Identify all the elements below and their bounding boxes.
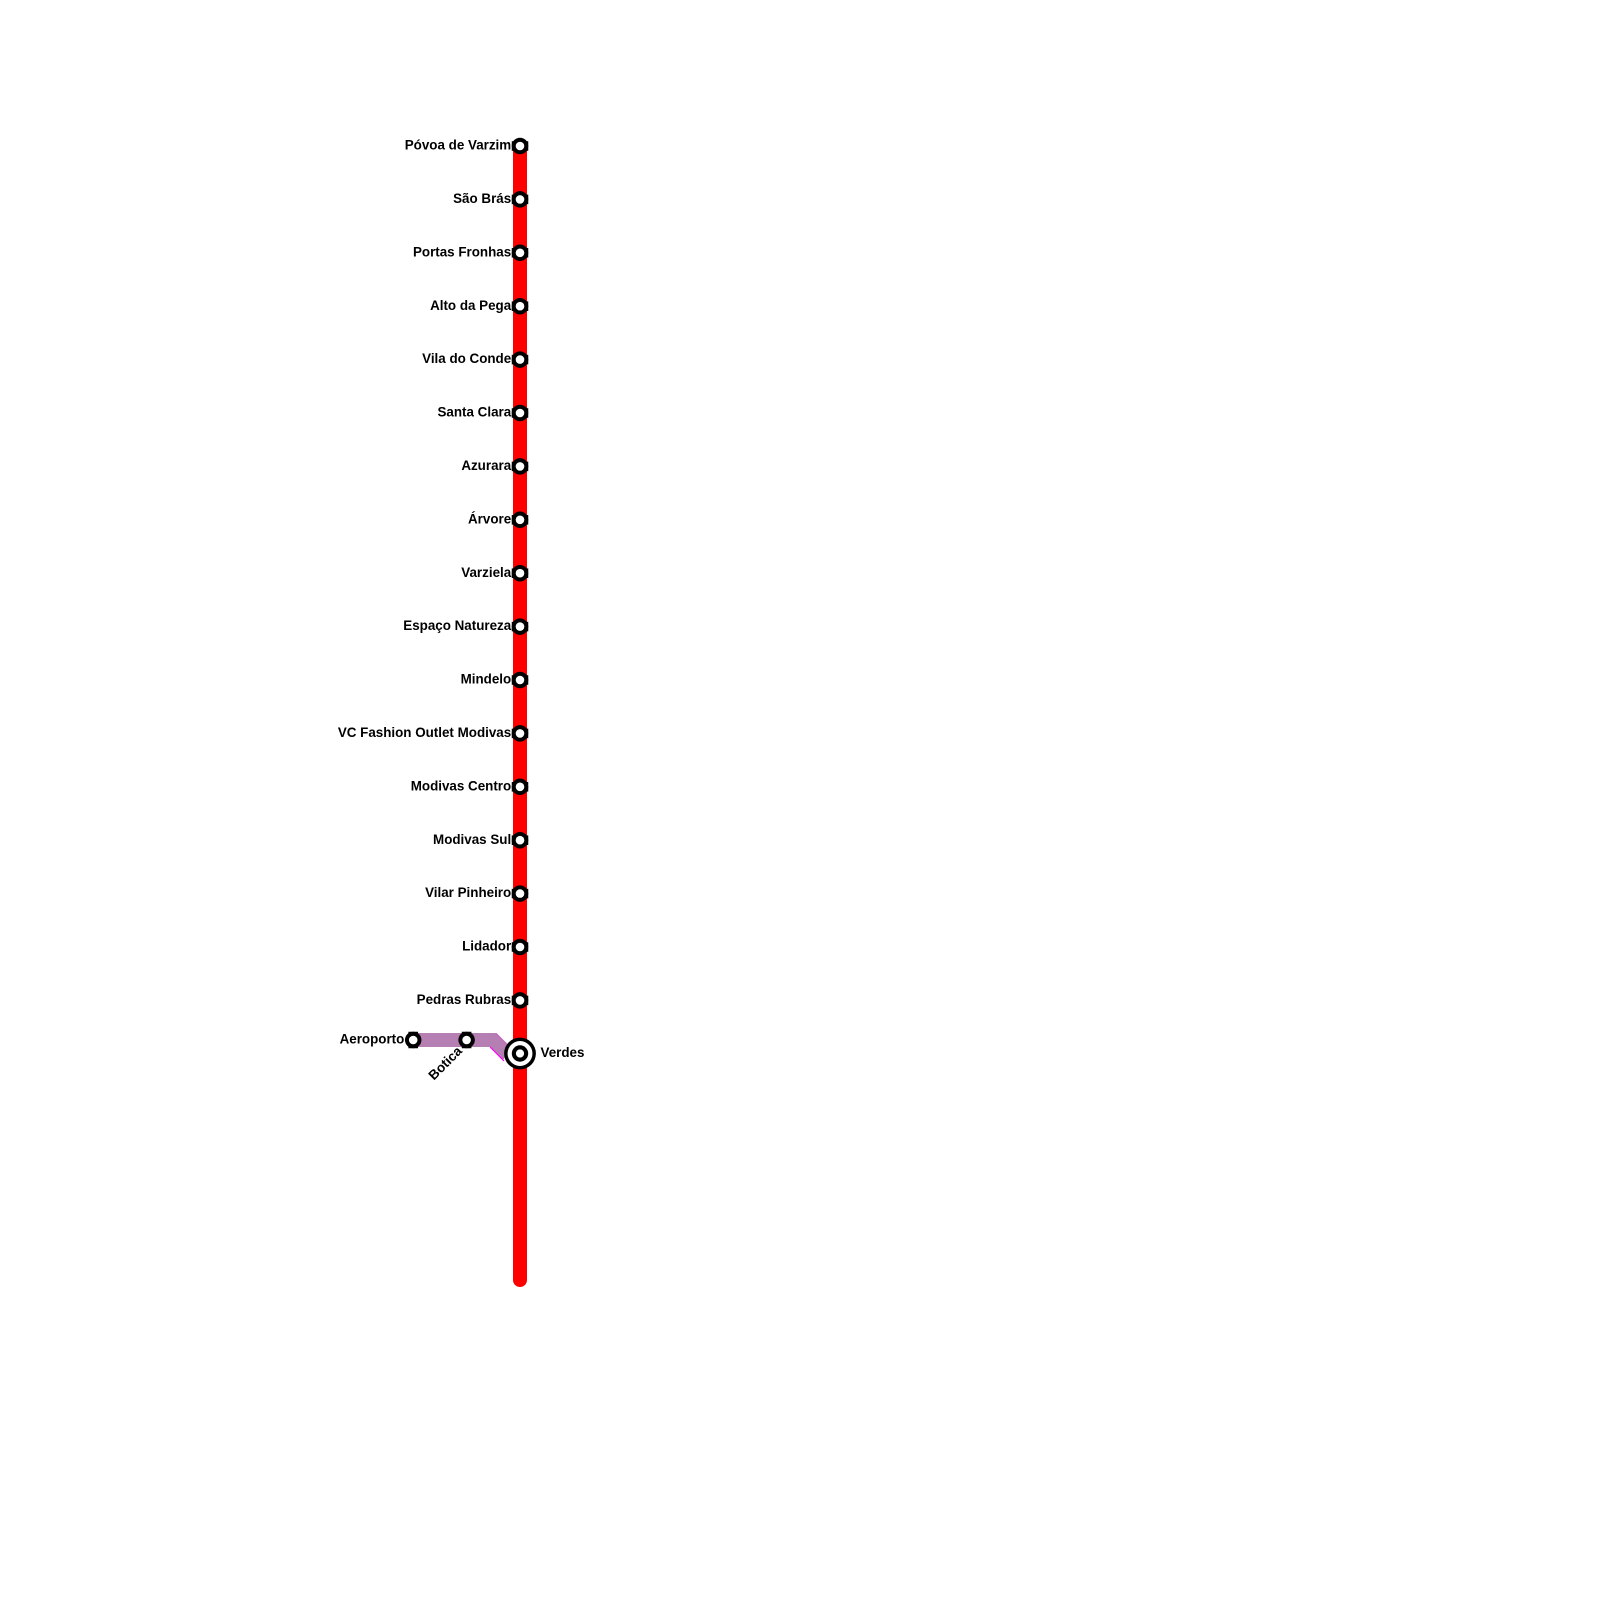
svg-text:São Brás: São Brás <box>453 191 511 206</box>
station Póvoa de Varzim <box>512 138 529 155</box>
station Vilar Pinheiro <box>512 885 529 902</box>
station Espaço Natureza <box>512 618 529 635</box>
station Mindelo <box>512 672 529 689</box>
svg-text:Santa Clara: Santa Clara <box>438 405 512 420</box>
svg-text:Mindelo: Mindelo <box>461 672 512 687</box>
svg-text:Portas Fronhas: Portas Fronhas <box>413 244 511 259</box>
station Botica <box>458 1032 475 1049</box>
station VC Fashion Outlet Modivas <box>512 725 529 742</box>
svg-text:Alto da Pega: Alto da Pega <box>430 298 512 313</box>
interchange station Verdes <box>504 1038 536 1070</box>
station São Brás <box>512 191 529 208</box>
svg-text:Pedras Rubras: Pedras Rubras <box>417 992 512 1007</box>
station Alto da Pega <box>512 298 529 315</box>
station Modivas Sul <box>512 832 529 849</box>
station Azurara <box>512 458 529 475</box>
svg-text:Modivas Centro: Modivas Centro <box>411 778 511 793</box>
svg-text:Modivas Sul: Modivas Sul <box>433 832 511 847</box>
station Árvore <box>512 512 529 529</box>
station Varziela <box>512 565 529 582</box>
svg-text:Espaço Natureza: Espaço Natureza <box>403 618 511 633</box>
purple branch line: Aeroporto – Botica – Verdes <box>413 1040 508 1055</box>
station Aeroporto <box>405 1032 422 1049</box>
svg-text:Vilar Pinheiro: Vilar Pinheiro <box>425 885 511 900</box>
svg-text:Verdes: Verdes <box>541 1045 585 1060</box>
station Portas Fronhas <box>512 245 529 261</box>
svg-text:Vila do Conde: Vila do Conde <box>422 351 511 366</box>
darker edge line along diagonal upper edge <box>496 1033 509 1046</box>
svg-text:Árvore: Árvore <box>468 511 511 526</box>
svg-text:Póvoa de Varzim: Póvoa de Varzim <box>405 138 512 153</box>
station Modivas Centro <box>512 779 529 796</box>
svg-text:VC Fashion Outlet Modivas: VC Fashion Outlet Modivas <box>338 725 511 740</box>
station Lidador <box>512 939 529 956</box>
svg-text:Varziela: Varziela <box>461 565 511 580</box>
svg-text:Lidador: Lidador <box>462 939 512 954</box>
station Pedras Rubras <box>512 992 529 1009</box>
station Santa Clara <box>512 405 529 422</box>
station Vila do Conde <box>512 351 529 368</box>
svg-text:Aeroporto: Aeroporto <box>340 1032 405 1047</box>
red line B (Póvoa de Varzim – south) <box>513 146 527 1280</box>
magenta route line along diagonal lower edge <box>490 1047 504 1061</box>
svg-text:Azurara: Azurara <box>461 458 511 473</box>
